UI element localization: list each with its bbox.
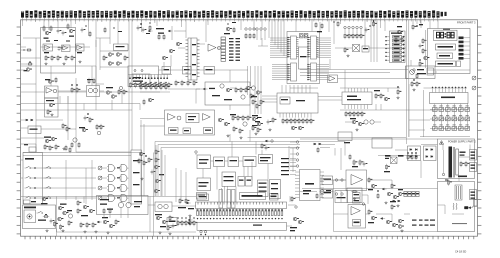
parts above2 — [87, 78, 95, 84]
node stub cluster — [21, 62, 33, 72]
left arrow tag — [186, 202, 194, 217]
filler parts2 — [104, 27, 122, 33]
filler parts3 — [143, 98, 154, 105]
wire — [438, 204, 446, 206]
wire — [120, 208, 122, 218]
wire — [230, 87, 236, 89]
label in-the — [452, 223, 467, 224]
wire — [240, 20, 242, 30]
servo box — [128, 66, 159, 87]
box Q3 — [347, 188, 362, 203]
wire — [420, 20, 422, 28]
wire — [261, 20, 263, 30]
wire — [387, 88, 389, 92]
resistor bank RA2 — [175, 80, 197, 86]
dense cluster transistors — [252, 115, 263, 135]
label box — [362, 46, 369, 52]
block box3 — [228, 157, 239, 167]
label box fluorescent driver — [436, 44, 456, 50]
resistor R9 — [344, 47, 346, 53]
wire — [172, 205, 196, 207]
wire — [329, 59, 331, 70]
label — [257, 117, 262, 118]
wire — [59, 96, 61, 104]
wire — [195, 89, 197, 104]
wire — [287, 225, 293, 227]
wire — [128, 91, 170, 93]
wire — [168, 88, 200, 90]
block box2 — [214, 157, 225, 167]
cluster right of dolby — [218, 114, 251, 139]
bridge box D1 — [353, 45, 360, 52]
dolby box — [165, 110, 215, 135]
pin row ticks — [129, 75, 167, 79]
wire — [99, 38, 101, 70]
wire — [333, 180, 335, 189]
FL display box — [197, 223, 287, 231]
label KEY BOARD — [25, 158, 34, 160]
ladder A8 — [221, 37, 226, 61]
wire — [185, 172, 187, 202]
wire — [458, 175, 460, 181]
connector CN10 — [470, 150, 477, 161]
op-amp U2 — [62, 45, 71, 52]
power part1 box — [438, 182, 475, 232]
empty box L2 — [372, 138, 392, 148]
small box M11 — [474, 200, 478, 207]
wire — [253, 20, 255, 30]
tall box C — [232, 190, 236, 209]
wire — [300, 191, 317, 193]
top parts Q2 — [303, 190, 331, 200]
head connector pins — [290, 141, 299, 167]
wire — [23, 37, 40, 39]
label box O7 — [167, 218, 177, 226]
svg-text:FRONT PART 3: FRONT PART 3 — [457, 21, 476, 25]
4-head box — [259, 155, 273, 164]
wire — [185, 20, 187, 38]
audio box — [205, 82, 250, 105]
wire — [319, 22, 321, 32]
U2 bottom pin stubs — [280, 113, 311, 118]
connector pins trio — [256, 28, 266, 40]
op-amp A7 — [208, 44, 221, 51]
wire — [344, 142, 346, 156]
wire — [311, 20, 313, 32]
wire — [406, 109, 438, 111]
signal labels — [281, 158, 296, 175]
wire — [21, 196, 196, 198]
display digits 88:88 — [437, 29, 455, 38]
wire vertical — [423, 90, 425, 137]
transformer T1 primary — [449, 147, 453, 178]
wire — [58, 90, 87, 92]
wire — [429, 20, 431, 29]
wire — [239, 160, 244, 162]
transistor Q5 — [108, 62, 112, 66]
wire — [128, 74, 172, 76]
sheet frame — [21, 20, 478, 236]
wire — [366, 213, 370, 215]
connector CN1 pin stubs — [22, 20, 438, 22]
wire — [163, 62, 165, 70]
wire — [442, 145, 444, 151]
block box5 — [197, 178, 211, 191]
arrow tag — [203, 88, 215, 90]
chain parts — [151, 149, 164, 193]
connector CN11 — [470, 163, 477, 172]
wire — [36, 109, 132, 111]
box bottom L1 — [338, 132, 352, 143]
wire — [338, 78, 409, 80]
wire vertical — [340, 148, 342, 170]
wire — [91, 66, 93, 86]
box lowleft — [28, 126, 41, 134]
resistor below2 — [353, 199, 361, 204]
filler parts1 — [81, 26, 91, 38]
wire — [43, 20, 45, 28]
transistor Q8 — [291, 126, 295, 130]
wire — [128, 20, 130, 150]
transistor Q2 — [67, 23, 75, 37]
svg-text:POWER SUPPLY PART 2: POWER SUPPLY PART 2 — [448, 141, 476, 144]
power inlet box — [23, 205, 56, 229]
U2 left feed wires — [262, 96, 277, 102]
wire — [229, 105, 231, 110]
wire — [399, 48, 401, 56]
wire vertical — [56, 197, 58, 233]
cluster N9 — [67, 210, 73, 226]
wire vertical pair — [222, 186, 228, 202]
key IC U3 — [430, 93, 469, 104]
cluster left gap — [84, 113, 94, 123]
wire — [320, 144, 335, 146]
wire — [96, 37, 110, 39]
resistor bank RB1 — [282, 118, 314, 124]
label box2 — [437, 53, 453, 59]
U1 left pin fan wires — [270, 38, 289, 80]
front lower-left parts — [413, 59, 424, 79]
IC A6 — [188, 38, 197, 80]
transistor Q6 — [116, 62, 120, 66]
wire — [421, 144, 438, 146]
wire — [217, 47, 221, 49]
relay box K2 — [183, 67, 192, 75]
wire — [416, 20, 418, 24]
wire — [23, 152, 141, 154]
PLL IC U4 — [342, 92, 372, 105]
wire — [255, 142, 257, 155]
wire — [155, 145, 157, 196]
IC box K5 — [258, 180, 269, 197]
cluster O1 — [77, 200, 98, 233]
wire — [367, 179, 393, 181]
reg box O2 — [97, 196, 149, 215]
wire — [261, 38, 263, 46]
address bus wires — [269, 20, 284, 56]
wire — [410, 60, 412, 66]
wire — [404, 213, 410, 215]
top pin drop wires — [22, 20, 420, 36]
cluster right — [251, 86, 264, 109]
wire — [369, 47, 406, 49]
cluster front top — [412, 24, 423, 30]
resistor R2 — [51, 55, 53, 61]
wire — [249, 105, 251, 118]
svg-text:C4 18 SD: C4 18 SD — [455, 250, 466, 254]
transformer T1 secondary — [456, 149, 459, 175]
wire — [75, 197, 77, 201]
wire — [231, 142, 233, 158]
warning triangle — [439, 141, 443, 145]
wire vertical — [67, 96, 69, 140]
wire — [76, 151, 131, 153]
cluster below U2 — [267, 117, 277, 131]
wire — [83, 104, 85, 111]
crystal X1 — [300, 34, 304, 38]
wire — [247, 167, 249, 177]
wire — [21, 91, 45, 93]
key matrix S1-S18 — [430, 106, 470, 131]
wire — [175, 168, 177, 202]
bus line3 — [161, 148, 300, 197]
wire — [35, 144, 37, 152]
wire — [340, 87, 400, 89]
wire — [148, 204, 155, 206]
section bottom line — [334, 231, 438, 233]
label box P1 — [197, 193, 207, 200]
wire vertical — [75, 78, 77, 152]
wire — [420, 161, 422, 171]
wire — [318, 99, 342, 101]
wire — [235, 187, 237, 203]
cluster parts — [395, 26, 403, 43]
label box P3 — [270, 194, 279, 201]
wire vertical — [260, 66, 262, 114]
wire — [36, 119, 63, 121]
wire — [58, 91, 87, 93]
wire — [121, 92, 123, 104]
U2 top feed wires — [282, 85, 310, 93]
wire — [170, 55, 172, 67]
FL pin row — [197, 209, 284, 220]
block pair — [238, 177, 252, 187]
wire — [300, 138, 438, 140]
cluster right amp — [377, 190, 379, 199]
dark pair Q8 — [398, 219, 404, 232]
wire — [345, 121, 352, 123]
wire — [258, 45, 268, 47]
wire — [21, 137, 44, 139]
keyboard box — [23, 153, 43, 205]
bridge rectifier D20 — [408, 146, 421, 161]
osc box2 — [87, 86, 100, 97]
wire — [340, 191, 342, 203]
wire — [324, 191, 334, 193]
cluster left — [138, 152, 152, 180]
resistor bank RA1 — [130, 82, 173, 88]
display DS1 box — [434, 30, 458, 40]
wire — [100, 90, 105, 92]
wire — [378, 155, 420, 157]
model list text — [412, 220, 435, 226]
array A9 — [229, 38, 240, 61]
wire — [409, 129, 425, 131]
tall box A — [219, 190, 223, 209]
wire — [178, 47, 186, 49]
wire — [405, 66, 407, 78]
key matrix column wires — [435, 104, 468, 131]
wire — [21, 143, 36, 145]
transistor Q9 — [298, 126, 302, 130]
wire — [452, 213, 464, 215]
resistor R10 — [373, 20, 377, 27]
switch SW1 — [37, 211, 55, 223]
wire — [428, 69, 471, 71]
fuse labels — [460, 152, 470, 168]
bias osc box — [45, 86, 59, 98]
filler parts5 — [228, 22, 237, 25]
block box6 — [222, 172, 236, 187]
label AC — [458, 176, 467, 178]
wire — [21, 83, 36, 85]
wire — [435, 71, 437, 73]
resistor R8 — [250, 93, 252, 99]
wire — [395, 149, 408, 151]
wire — [205, 20, 207, 42]
U1 pin columns — [288, 36, 319, 81]
wire — [96, 83, 104, 85]
label box K7 — [322, 176, 343, 185]
IC box K4 — [270, 180, 281, 199]
wire — [23, 155, 131, 157]
wire — [367, 195, 369, 204]
transformer T2 — [455, 185, 462, 200]
wire — [289, 196, 291, 202]
cluster keyboard right — [65, 145, 71, 153]
filler parts6 — [334, 21, 340, 27]
wire — [174, 30, 186, 32]
wire vertical — [257, 66, 259, 114]
FL connector band — [196, 202, 287, 209]
section divider line — [406, 20, 408, 137]
resistor pair — [71, 84, 80, 93]
bus line2 — [158, 145, 300, 197]
wire — [420, 136, 470, 138]
wire — [267, 164, 269, 180]
op-amp U3 — [76, 44, 85, 53]
wire — [318, 96, 342, 98]
wire — [333, 20, 335, 44]
wire — [424, 87, 468, 89]
section divider line2 — [408, 20, 410, 137]
frame tick marks — [17, 27, 482, 239]
filler parts7 — [365, 26, 371, 33]
wire — [156, 20, 158, 26]
wire — [111, 100, 113, 110]
wire — [420, 170, 422, 178]
transformer T1 core — [452, 147, 454, 178]
cluster low — [62, 123, 104, 135]
pin circle — [442, 173, 444, 175]
wire — [85, 168, 87, 204]
crystal X2 — [304, 34, 308, 38]
resistor bank RD1 — [140, 82, 169, 90]
wire vertical — [250, 66, 252, 86]
wire — [202, 169, 204, 179]
label box3 — [436, 61, 461, 67]
wire — [21, 159, 23, 161]
wire — [243, 167, 245, 177]
motor box — [24, 210, 36, 223]
wire — [288, 204, 296, 206]
logic gates U5 — [107, 165, 129, 202]
wire — [211, 160, 214, 162]
small box N1 — [24, 200, 37, 204]
wire — [300, 75, 327, 77]
cluster N8 — [45, 204, 68, 233]
U1 right pin fan wires — [317, 38, 332, 80]
wire vertical — [370, 20, 372, 62]
block box7 — [197, 194, 209, 201]
left frame tap — [21, 49, 32, 51]
wire — [57, 231, 197, 233]
wire — [261, 150, 263, 155]
wire — [225, 160, 229, 162]
diode pair — [21, 119, 33, 121]
cluster Q6b — [398, 189, 404, 196]
amp section box — [41, 28, 76, 74]
cluster below U4 — [350, 118, 374, 131]
wire — [300, 69, 408, 71]
transistor Q3 — [108, 53, 112, 57]
wire — [469, 145, 471, 150]
label — [54, 40, 58, 41]
analog switch IC U6 — [131, 150, 142, 204]
tag parts — [158, 34, 165, 40]
record IC U7 — [300, 170, 321, 201]
wire — [229, 70, 231, 82]
wire — [171, 26, 173, 40]
cluster P8 — [290, 196, 304, 232]
wire — [128, 150, 130, 204]
label box K8 — [322, 190, 343, 199]
wire — [443, 150, 445, 173]
wire — [216, 167, 218, 190]
power section box — [438, 139, 475, 179]
front section box — [428, 29, 471, 74]
wire — [375, 104, 377, 110]
microprocessor U1 outline — [287, 32, 320, 84]
box below — [45, 98, 59, 117]
wire — [139, 104, 141, 111]
pullup resistor row — [344, 26, 365, 39]
ground — [63, 62, 65, 63]
wire — [459, 156, 470, 158]
wire — [437, 20, 439, 29]
bridge rectifier D21 — [424, 146, 437, 161]
cluster2 — [71, 138, 80, 148]
cluster A10 — [224, 27, 235, 35]
cluster O4 — [155, 202, 173, 234]
wire vertical — [247, 66, 249, 95]
wire — [290, 87, 318, 89]
wire — [288, 146, 290, 170]
parts above — [45, 77, 57, 83]
cluster O3 — [97, 217, 119, 234]
section top line — [302, 188, 438, 190]
cluster top right2 — [315, 22, 323, 33]
